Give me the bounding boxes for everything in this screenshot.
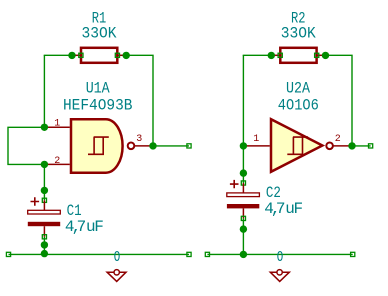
rail end square left: [6, 252, 10, 256]
pin-end square C2 top: [241, 181, 245, 185]
rail end square left (right rail): [205, 252, 209, 256]
wire top horizontal left (to R1): [44, 54, 74, 56]
wire C1 bottom to rail: [43, 237, 45, 255]
junction C1 top: [41, 187, 48, 194]
capacitor C1 top plate: [28, 210, 61, 214]
junction U1A pin2 node: [41, 161, 48, 168]
junction R1 right: [123, 52, 130, 59]
U2A output bubble: [326, 143, 333, 150]
junction R2 right: [322, 52, 329, 59]
svg-text:U1A: U1A: [86, 79, 110, 97]
wire U1A output: [153, 145, 189, 147]
ground rail left: [9, 253, 190, 255]
resistor R2 pin 2 (right): [317, 54, 326, 56]
wire pin2 node down to C1: [43, 164, 45, 190]
wire C2 bottom to rail: [242, 218, 244, 254]
capacitor C2 bottom pin: [242, 208, 244, 218]
rail end square right (right rail): [351, 252, 355, 256]
svg-text:4O1O6: 4O1O6: [278, 97, 319, 115]
pin-end square C1 top: [42, 198, 46, 202]
wire top horizontal right (R1 to output corner): [124, 55, 153, 146]
junction C2 top: [240, 169, 247, 176]
pin-end square R2 right: [315, 53, 319, 57]
capacitor C1 bottom pin: [43, 226, 45, 237]
U1A output bubble: [128, 143, 135, 150]
junction below C1: [41, 241, 48, 248]
svg-text:2: 2: [54, 156, 60, 167]
rail end square right: [187, 252, 191, 256]
wire U2A output: [352, 145, 371, 147]
junction R1 left: [68, 52, 75, 59]
junction U2A output: [348, 142, 355, 149]
capacitor C2 bottom plate: [227, 204, 259, 208]
pin-end square R2 left: [278, 53, 282, 57]
svg-text:4,7uF: 4,7uF: [65, 218, 104, 236]
U1A schmitt hysteresis symbol: [88, 137, 109, 154]
U2A pin 2: [333, 145, 351, 147]
U1A pin 3: [135, 145, 152, 147]
svg-text:33OK: 33OK: [82, 25, 117, 43]
junction U1A pin1 node: [41, 124, 48, 131]
capacitor C2 top plate: [227, 193, 260, 197]
svg-text:O: O: [114, 249, 121, 266]
junction C2 at rail: [240, 251, 247, 258]
junction below C2: [240, 225, 247, 232]
pin-end square C2 bottom: [241, 216, 245, 220]
wire end square U2A output: [369, 144, 373, 148]
resistor R1 pin 2 (right): [117, 54, 126, 56]
svg-text:HEF4O93B: HEF4O93B: [63, 97, 133, 115]
ground symbol right (0 supply): [270, 272, 289, 281]
U1A pin 2: [44, 163, 69, 165]
ground symbol left circle: [114, 270, 119, 275]
svg-text:1: 1: [54, 119, 60, 130]
capacitor C2 top pin: [242, 183, 244, 193]
wire top horizontal right (R2 to output corner): [323, 55, 352, 146]
wire end square U1A output: [187, 144, 191, 148]
wire C1 top node to pin tip: [43, 190, 45, 200]
svg-text:4,7uF: 4,7uF: [264, 200, 303, 218]
svg-text:U2A: U2A: [286, 79, 310, 97]
U2A schmitt hysteresis symbol: [287, 137, 308, 154]
junction U2A input node: [240, 142, 247, 149]
resistor R2 body: [280, 48, 316, 63]
pin-end square R1 left: [79, 53, 83, 57]
U2A pin 1: [243, 145, 269, 147]
junction R2 left: [268, 52, 275, 59]
svg-text:33OK: 33OK: [281, 25, 316, 43]
ground symbol left (0 supply): [107, 272, 126, 281]
wire input node down to C2: [242, 146, 244, 173]
wire C2 top node to pin tip: [242, 173, 244, 183]
wire top horizontal left (to R2): [243, 54, 273, 56]
resistor R1 body: [81, 48, 117, 63]
svg-text:O: O: [277, 249, 284, 266]
svg-text:1: 1: [253, 134, 259, 145]
U1A pin 1: [44, 126, 69, 128]
ground rail right: [207, 253, 352, 255]
resistor R2 pin 1 (left): [271, 54, 280, 56]
capacitor C1 top pin: [43, 200, 45, 210]
svg-text:3: 3: [136, 134, 142, 145]
junction U1A output: [149, 142, 156, 149]
C1 plus sign: [31, 197, 40, 205]
svg-text:2: 2: [335, 134, 341, 145]
ground symbol right circle: [277, 270, 282, 275]
C2 plus sign: [230, 180, 239, 188]
junction C1 at rail: [41, 250, 48, 257]
resistor R1 pin 1 (left): [72, 54, 81, 56]
wire top-left vertical (R2 feedback to input node): [242, 55, 244, 146]
wire feedback loop tying pins 1-2: [8, 127, 44, 164]
capacitor C1 bottom plate: [28, 222, 60, 226]
pin-end square C1 bottom: [42, 235, 46, 239]
inverter U2A body (triangle): [271, 119, 322, 172]
op-gate U1A body (NAND D-shape): [71, 119, 123, 173]
wire top-left vertical (R1 feedback to pin1 node): [43, 55, 45, 127]
pin-end square R1 right: [115, 53, 119, 57]
